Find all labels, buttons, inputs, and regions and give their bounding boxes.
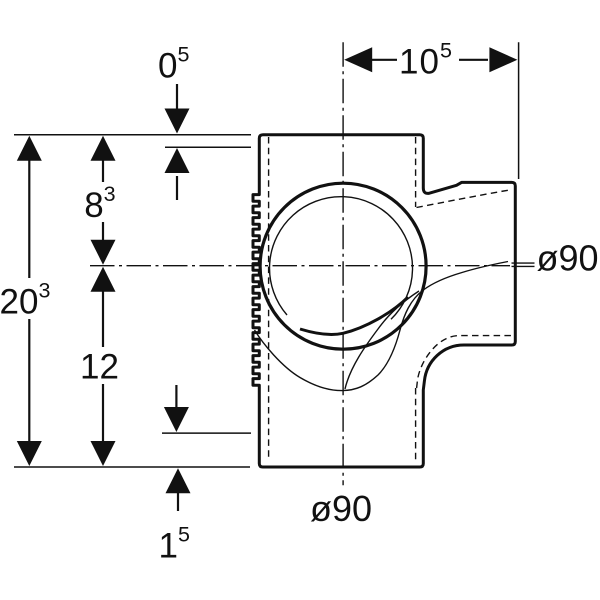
1.5 arrow tails <box>175 385 177 408</box>
bore dashed line right upper <box>415 137 417 207</box>
branch socket top dashed <box>417 190 511 208</box>
front bore circle ø90 (thin) <box>270 197 413 320</box>
svg-text:ø90: ø90 <box>310 488 372 529</box>
bore lower lip (thick) <box>300 297 408 335</box>
front socket outer circle <box>260 183 426 349</box>
extension line top <box>14 134 251 136</box>
20.3 dimension line <box>28 160 30 278</box>
sweep inner edge <box>345 291 419 389</box>
center line vertical <box>342 42 344 485</box>
fitting body outline <box>253 135 515 467</box>
sweep silhouette curve <box>255 262 509 391</box>
extension line bottom <box>14 466 250 468</box>
10.5 dimension line <box>371 59 397 61</box>
8.3 dimension line <box>102 160 104 182</box>
extension line right (10.5) <box>518 42 520 179</box>
12 dimension line <box>102 290 104 347</box>
extension line 1.5 ref <box>162 432 251 434</box>
bore dashed line left <box>268 137 270 461</box>
extension line socket depth top <box>165 146 251 148</box>
branch socket bottom dashed <box>417 336 513 388</box>
dimension arrowheads <box>17 47 518 493</box>
0.5 arrow tails <box>176 84 178 110</box>
bore dashed line right lower <box>415 388 417 461</box>
center line horizontal <box>90 265 510 267</box>
leader lines right ø90 <box>512 262 535 264</box>
svg-text:12: 12 <box>80 347 119 386</box>
svg-text:ø90: ø90 <box>537 238 599 279</box>
